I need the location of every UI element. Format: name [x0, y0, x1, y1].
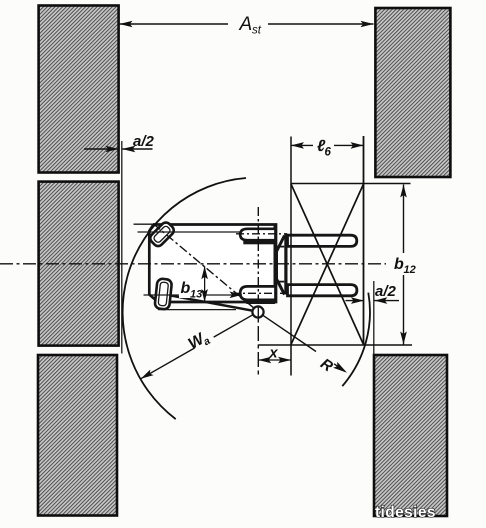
- svg-text:x: x: [269, 346, 279, 362]
- svg-text:a/2: a/2: [133, 133, 155, 150]
- svg-text:12: 12: [404, 264, 416, 276]
- svg-text:b: b: [394, 256, 404, 273]
- svg-text:13: 13: [190, 289, 202, 301]
- svg-text:st: st: [252, 25, 262, 37]
- svg-text:A: A: [239, 14, 253, 35]
- svg-text:a/2: a/2: [375, 283, 397, 300]
- svg-text:b: b: [181, 280, 191, 297]
- svg-text:6: 6: [325, 147, 332, 159]
- svg-text:tidesies: tidesies: [375, 504, 436, 521]
